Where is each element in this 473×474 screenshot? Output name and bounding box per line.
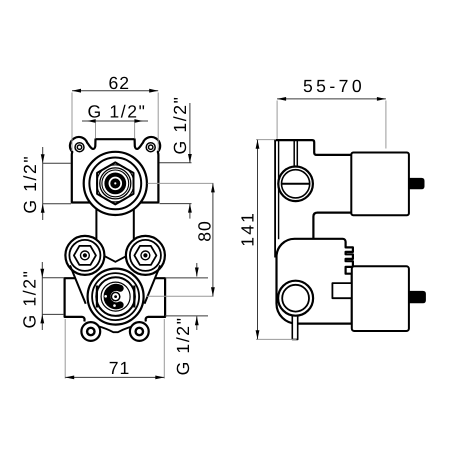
bottom mounting ear lobes bbox=[81, 322, 100, 341]
lower mixer valve face with C-clip bbox=[88, 269, 144, 325]
svg-text:G 1/2": G 1/2" bbox=[170, 96, 190, 155]
wall mounting plate edge lines bbox=[274, 140, 276, 257]
drain tube below knob (side view) bbox=[292, 312, 297, 339]
outlet riser pipe (side view) bbox=[293, 141, 295, 168]
lower body block (front view) bbox=[65, 278, 166, 317]
svg-text:G 1/2": G 1/2" bbox=[173, 316, 193, 375]
lower cartridge locating tab bbox=[332, 283, 351, 298]
V notch where inlet branches meet bbox=[104, 256, 126, 262]
chevron outline between bottom ears bbox=[98, 326, 134, 332]
lower mixer cartridge housing bbox=[352, 266, 409, 331]
svg-text:G 1/2": G 1/2" bbox=[88, 102, 147, 122]
svg-text:80: 80 bbox=[195, 220, 215, 242]
svg-text:G 1/2": G 1/2" bbox=[20, 270, 40, 329]
upper body block with mounting ears (front view) bbox=[70, 137, 160, 203]
lower cartridge spindle (black) bbox=[409, 291, 426, 303]
svg-text:G 1/2": G 1/2" bbox=[20, 155, 40, 214]
connecting pipe between upper and lower body bbox=[96, 200, 133, 250]
lower body block with rack teeth (side view) bbox=[277, 239, 353, 324]
svg-text:141: 141 bbox=[238, 211, 258, 247]
front view: valve body bbox=[65, 137, 166, 341]
dimensions and labels bbox=[20, 73, 386, 379]
upper G 1/2 plug circle with slot (side view) bbox=[278, 167, 313, 202]
side view: valve body bbox=[274, 140, 426, 339]
upper body top edge, corner and ledge (side view) bbox=[274, 140, 351, 155]
upper-left ear screw hole bbox=[75, 143, 84, 152]
svg-text:71: 71 bbox=[109, 358, 131, 378]
upper valve cartridge face (hex nut and seals) bbox=[84, 152, 147, 215]
upper cartridge spindle (black) bbox=[409, 178, 425, 189]
upper thermostat cartridge housing bbox=[351, 153, 409, 216]
upper-right ear screw hole bbox=[146, 143, 155, 152]
right inlet hex nut bbox=[126, 236, 165, 275]
volume control knob circle (side view) bbox=[278, 281, 313, 316]
waist under upper cartridge (side view) bbox=[313, 213, 350, 239]
svg-text:55-70: 55-70 bbox=[303, 76, 365, 96]
branch neck edges from nuts to valve hub bbox=[70, 265, 86, 303]
left inlet hex nut bbox=[65, 236, 104, 275]
